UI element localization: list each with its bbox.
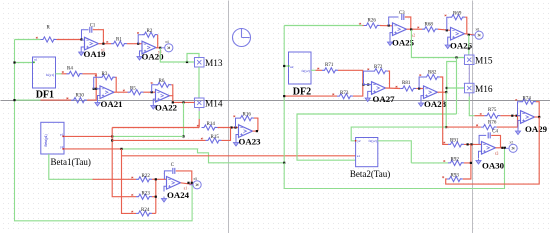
svg-text:R92: R92 xyxy=(451,157,460,162)
resistor R68 xyxy=(417,23,438,32)
wire x2 to Beta2 y2 pin xyxy=(351,127,446,141)
op-amp OA24 xyxy=(167,177,190,201)
svg-text:R4: R4 xyxy=(67,67,73,72)
wire net to Beta2 input xyxy=(297,114,457,160)
wire y1d vertical to R23 xyxy=(112,128,136,197)
wire OA29 out to R93 xyxy=(446,117,540,184)
junction node at 468.3,48 xyxy=(468,47,470,49)
svg-text:R24: R24 xyxy=(141,208,150,213)
wire Beta1 y2 red xyxy=(64,148,122,150)
junction node at 186.5,61.5 xyxy=(186,61,188,63)
resistor R82 xyxy=(419,71,440,80)
multiplier M13 xyxy=(195,58,223,70)
junction node at 418.6,88 xyxy=(418,87,420,89)
wire OA25 feedback left xyxy=(389,17,399,26)
output probe x5 node z1 xyxy=(189,177,201,189)
op-amp OA21 xyxy=(100,86,123,109)
wire OA19 feedback right xyxy=(93,30,104,44)
block Beta1(Tau) xyxy=(41,122,91,167)
junction node at 446.2,87.5 xyxy=(446,87,448,89)
wire R30 to OA21 minus xyxy=(87,89,96,100)
svg-text:z2: z2 xyxy=(495,152,499,156)
wire OA27 feedback left xyxy=(364,71,373,85)
svg-text:R26: R26 xyxy=(368,19,377,24)
svg-text:OA22: OA22 xyxy=(155,103,178,113)
wire x2 to R76 xyxy=(446,126,481,128)
svg-text:R14: R14 xyxy=(207,122,216,127)
svg-text:C1: C1 xyxy=(90,23,96,28)
wire OA20 out xyxy=(156,47,161,49)
ground xyxy=(445,43,450,49)
svg-text:R3: R3 xyxy=(102,72,108,77)
ground xyxy=(418,101,423,107)
op-amp OA30 xyxy=(482,142,505,171)
ground xyxy=(387,40,392,46)
junction node at 468.3,34.4 xyxy=(468,34,470,36)
svg-text:R6: R6 xyxy=(159,79,165,84)
resistor R81 xyxy=(396,81,417,91)
wire R14 to OA23 xyxy=(218,127,239,129)
wire OA30 out xyxy=(496,147,506,149)
svg-text:R1: R1 xyxy=(116,38,122,43)
wire M14 out red xyxy=(198,119,200,128)
op-amp OA26 xyxy=(450,27,473,50)
wire R4 to OA21 minus xyxy=(83,74,97,89)
wire OA26 feedback right xyxy=(465,17,467,34)
resistor R6 xyxy=(151,79,172,87)
wire OA20 feedback left xyxy=(138,35,142,44)
resistor R71 xyxy=(317,63,338,73)
wire Beta1 out to R22 green xyxy=(49,154,93,179)
multiplier M16 xyxy=(465,83,493,95)
wire to R75 red xyxy=(475,115,485,117)
svg-text:C4: C4 xyxy=(492,129,498,134)
wire OA28 feedback right xyxy=(440,77,443,92)
svg-text:R23: R23 xyxy=(142,191,151,196)
resistor R74 xyxy=(515,97,536,105)
wire y1 to DF1 u1 xyxy=(15,62,33,64)
junction node at 470.9,143.9 xyxy=(470,143,472,145)
junction node at 14,62 xyxy=(13,61,15,63)
wire OA23 feedback right xyxy=(254,118,258,131)
resistor R23 xyxy=(131,191,152,199)
wire to R68 xyxy=(413,28,423,30)
output probe x4 node y1 xyxy=(161,40,173,52)
wire M14 out green xyxy=(198,111,200,119)
wire y2 net vertical xyxy=(283,26,285,163)
junction node at 151.2,91.7 xyxy=(151,91,153,93)
wire OA29 feedback right xyxy=(536,102,539,117)
svg-text:fx(y1): fx(y1) xyxy=(46,73,54,77)
junction node at 111.7,139.9 xyxy=(111,139,113,141)
wire R1 to OA20 xyxy=(127,43,142,45)
junction node at 445.7,91.7 xyxy=(445,91,447,93)
wire OA23 feedback left xyxy=(236,118,239,127)
wire OA21 feedback right xyxy=(115,77,118,92)
wire OA28 feedback left xyxy=(419,77,424,89)
page divider vertical 2 xyxy=(472,1,474,234)
svg-text:DF1: DF1 xyxy=(36,89,54,100)
ground xyxy=(137,55,142,61)
wire OA23 plus to ground xyxy=(236,135,239,141)
svg-text:fx(y2): fx(y2) xyxy=(302,69,310,73)
wire R68 to OA26 xyxy=(438,29,451,30)
ground xyxy=(161,197,166,203)
svg-text:Beta1(Tau): Beta1(Tau) xyxy=(51,157,91,167)
wire R75 to OA29 xyxy=(500,115,520,117)
wire R15 to OA23 node xyxy=(222,128,231,141)
wire DF1 out xyxy=(56,73,62,75)
wire OA26 feedback left xyxy=(447,17,449,30)
junction node at 283.7,162.3 xyxy=(283,162,285,164)
wire M14 row down to Beta1 y1 net xyxy=(183,102,185,136)
wire y2d long to Beta2 xyxy=(122,155,356,157)
resistor R26 xyxy=(359,19,380,28)
wire OA19 minus lead xyxy=(82,39,85,42)
page divider vertical 1 xyxy=(228,1,230,234)
wire Beta1 y1 green xyxy=(112,135,183,137)
wire OA24 feedback right xyxy=(176,171,192,183)
junction node at 14,99.6 xyxy=(13,99,15,101)
junction node at 367.7,84.1 xyxy=(367,84,369,86)
wire sum node to OA24 minus xyxy=(156,179,167,213)
wire y2 to DF2 u2 xyxy=(284,65,288,67)
junction node at 511.8,115.2 xyxy=(511,115,513,117)
junction node at 159.8,47.3 xyxy=(159,47,161,49)
junction node at 155.3,178.8 xyxy=(155,178,157,180)
svg-text:OA29: OA29 xyxy=(525,124,548,134)
wire y2d vertical to R24 xyxy=(122,149,137,214)
wire y1 to R30 xyxy=(15,99,41,101)
svg-text:x4: x4 xyxy=(165,40,169,44)
svg-text:M16: M16 xyxy=(475,85,493,95)
wire OA22 plus to ground xyxy=(153,99,155,103)
resistor R93 xyxy=(442,174,463,182)
junction node at 235,127 xyxy=(234,126,236,128)
svg-text:R76: R76 xyxy=(488,120,497,125)
junction node at 470.4,162.4 xyxy=(470,162,472,164)
junction node at 410.7,29 xyxy=(410,28,412,30)
capacitor C xyxy=(173,168,175,174)
junction node at 231,127 xyxy=(230,126,232,128)
capacitor C4 xyxy=(488,132,490,138)
wire R26 to OA25 xyxy=(380,25,393,27)
wire y1 to M13 left xyxy=(160,48,194,62)
wire to R71 xyxy=(316,69,323,71)
wire OA19 out xyxy=(99,43,112,45)
wire OA29 minus lead xyxy=(518,115,521,117)
wire DF2 out xyxy=(311,69,316,71)
svg-text:y2: y2 xyxy=(411,33,415,37)
junction node at 456,57 xyxy=(455,56,457,58)
ground xyxy=(365,96,370,102)
block Beta2(Tau) xyxy=(350,138,390,179)
svg-text:Beta(y1): Beta(y1) xyxy=(44,134,48,146)
wire OA27 out xyxy=(386,87,401,90)
svg-text:R22: R22 xyxy=(142,174,151,179)
junction node at 121,148.4 xyxy=(120,148,122,150)
svg-text:R93: R93 xyxy=(451,174,460,179)
wire to R26 red xyxy=(363,25,364,27)
svg-text:Beta2(Tau): Beta2(Tau) xyxy=(350,169,390,179)
wire R92 to OA30 node xyxy=(464,144,471,163)
svg-text:C3: C3 xyxy=(399,11,405,16)
wire y1 feedback loop xyxy=(15,40,193,221)
wire OA28 plus to ground xyxy=(421,96,424,101)
svg-text:x6: x6 xyxy=(476,28,480,32)
svg-text:u1: u1 xyxy=(34,58,38,62)
svg-text:OA24: OA24 xyxy=(167,190,190,200)
op-amp OA22 xyxy=(155,89,178,112)
resistor R22 xyxy=(131,174,152,182)
resistor R2 xyxy=(137,29,158,37)
junction node at 172.3,101.9 xyxy=(172,101,174,103)
op-amp OA27 xyxy=(372,82,396,104)
wire Beta2 fx out xyxy=(378,141,412,163)
wire Beta1 y2 green jog xyxy=(122,149,283,163)
op-amp OA25 xyxy=(392,23,415,48)
junction node at 256.4,130.6 xyxy=(256,130,258,132)
wire OA24 out xyxy=(181,183,194,185)
svg-text:y2: y2 xyxy=(357,139,361,143)
wire OA24 feedback left xyxy=(164,171,171,179)
svg-text:OA23: OA23 xyxy=(239,137,262,147)
wire OA25 feedback right xyxy=(405,17,411,29)
wire to M16 left pin xyxy=(447,87,465,89)
resistor R1 xyxy=(106,38,127,47)
junction node at 467.1,143.9 xyxy=(467,143,469,145)
wire R24 out xyxy=(152,212,156,214)
wire M16 out stub xyxy=(468,93,470,97)
svg-text:R2: R2 xyxy=(147,29,153,34)
wire OA19 plus to ground xyxy=(81,47,84,50)
wire x2 to R91 xyxy=(443,92,448,144)
wire OA25 out to M15 left xyxy=(411,30,464,58)
ground xyxy=(476,159,481,165)
wire OA26 out xyxy=(465,34,475,35)
wire OA19 feedback left xyxy=(82,30,89,40)
wire M13 out to M14 top xyxy=(198,67,200,98)
resistor R92 xyxy=(443,157,464,165)
svg-text:R75: R75 xyxy=(488,108,497,113)
junction node at 388.2,25 xyxy=(388,24,390,26)
svg-text:x2: x2 xyxy=(510,141,514,145)
junction node at 283.7,65.5 xyxy=(283,65,285,67)
wire OA30 feedback left xyxy=(479,135,486,144)
resistor R91 xyxy=(443,139,464,147)
wire OA23 out xyxy=(253,130,258,132)
wire OA21 feedback left xyxy=(94,77,100,89)
wire OA28 out xyxy=(438,91,448,93)
wire jog join xyxy=(283,162,285,164)
svg-text:C: C xyxy=(171,163,174,168)
wire R81 to OA28 xyxy=(416,88,423,90)
output probe x2 node z2 xyxy=(505,141,517,153)
wire OA27 feedback right xyxy=(388,71,390,88)
junction node at 504.4,147.3 xyxy=(504,147,506,149)
resistor R76 xyxy=(476,120,497,129)
resistor R15 xyxy=(201,135,222,143)
svg-text:OA21: OA21 xyxy=(101,99,123,109)
junction node at 538.7,116.5 xyxy=(538,116,540,118)
svg-text:fx(y2): fx(y2) xyxy=(369,139,377,143)
ground xyxy=(79,50,84,56)
resistor R5 xyxy=(123,86,144,94)
wire OA27 plus to ground xyxy=(368,91,372,96)
junction node at 111.7,135.9 xyxy=(111,135,113,137)
junction node at 501.9,147.3 xyxy=(501,147,503,149)
junction node at 516.1,115.2 xyxy=(516,115,518,117)
wire R76 to OA29 node xyxy=(497,116,518,127)
multiplier M15 xyxy=(465,55,493,67)
wire Beta1 y1 red xyxy=(64,135,112,137)
wire M16 out down to R75 xyxy=(469,97,474,116)
svg-text:R72: R72 xyxy=(374,65,383,70)
wire M15 out to M16 top xyxy=(468,65,470,84)
op-amp OA23 xyxy=(239,125,262,147)
wire branch to M16 left xyxy=(447,62,457,93)
wire R71 to OA27 xyxy=(338,70,363,84)
svg-text:R30: R30 xyxy=(76,94,85,99)
junction node at 95.7,88.3 xyxy=(95,88,97,90)
wire OA21 plus to ground xyxy=(98,96,101,101)
junction node at 81,39 xyxy=(80,38,82,40)
junction node at 446.3,29.8 xyxy=(446,29,448,31)
svg-text:R81: R81 xyxy=(402,81,411,86)
wire OA20 plus to ground xyxy=(140,51,143,55)
junction node at 188,182.3 xyxy=(187,182,189,184)
wire OA22 out to M14 left xyxy=(170,96,195,103)
svg-text:u2: u2 xyxy=(290,65,294,69)
svg-text:R82: R82 xyxy=(428,71,437,76)
svg-text:OA30: OA30 xyxy=(482,160,505,170)
block DF2 xyxy=(288,52,311,98)
wire M14 out stub xyxy=(198,108,200,112)
junction node at 363,84.1 xyxy=(362,84,364,86)
wire OA21 out xyxy=(114,91,128,93)
wire R91 to OA30 xyxy=(464,143,482,145)
wire OA29 feedback left xyxy=(518,102,521,116)
wire y1 to M13 top xyxy=(187,54,199,63)
svg-text:R73: R73 xyxy=(340,91,349,96)
svg-text:z1: z1 xyxy=(184,187,188,191)
junction node at 155.3,196.2 xyxy=(155,196,157,198)
junction node at 191.3,182.3 xyxy=(191,182,193,184)
output probe x6 node y2 xyxy=(471,28,483,40)
svg-text:x5: x5 xyxy=(194,177,198,181)
ground xyxy=(515,129,520,135)
wire OA25 out xyxy=(407,28,413,30)
svg-text:M14: M14 xyxy=(205,100,223,110)
junction node at 183,101.9 xyxy=(182,101,184,103)
op-amp OA28 xyxy=(424,86,447,109)
wire R22 out xyxy=(152,178,156,180)
ground xyxy=(151,104,156,110)
svg-text:R16: R16 xyxy=(243,113,252,118)
svg-text:R68: R68 xyxy=(425,23,434,28)
wire y2 to R73 xyxy=(284,95,337,97)
svg-text:M15: M15 xyxy=(475,57,493,67)
resistor R xyxy=(36,26,57,43)
wire R23 out xyxy=(152,196,156,198)
wire OA24 plus to ground xyxy=(164,186,167,191)
wire Beta1 out to R22 red xyxy=(93,178,137,180)
svg-text:R69: R69 xyxy=(453,11,462,16)
junction node at 445.7,126.6 xyxy=(445,126,447,128)
ground xyxy=(95,101,100,107)
wire OA21 minus lead xyxy=(96,88,100,90)
block DF1 xyxy=(33,57,56,100)
capacitor C3 xyxy=(402,14,404,20)
junction node at 137.7,43.2 xyxy=(137,43,139,45)
wire OA20 feedback right xyxy=(157,35,159,48)
svg-text:u1: u1 xyxy=(357,154,361,158)
wire net vertical x456 xyxy=(456,58,458,115)
wire OA30 feedback right xyxy=(491,135,500,147)
wire to R4 xyxy=(62,73,67,75)
resistor R3 xyxy=(95,72,116,80)
wire OA25 plus to ground xyxy=(390,33,393,40)
svg-text:R71: R71 xyxy=(325,63,334,68)
wire OA29 out xyxy=(535,116,540,118)
wire to R30 xyxy=(41,99,72,101)
resistor R73 xyxy=(332,91,353,99)
resistor R30 xyxy=(67,94,88,103)
svg-text:y1: y1 xyxy=(101,48,105,52)
resistor R72 xyxy=(367,65,388,74)
wire R73 to OA27 xyxy=(353,85,363,97)
wire R to OA19 xyxy=(57,39,82,41)
junction node at 102.9,43.2 xyxy=(102,43,104,45)
wire OA29 plus to ground xyxy=(518,120,521,129)
svg-text:OA27: OA27 xyxy=(373,94,396,104)
op-amp OA29 xyxy=(521,111,548,134)
wire y1 to R xyxy=(15,39,41,41)
junction node at 283.7,95.6 xyxy=(283,95,285,97)
resistor R4 xyxy=(62,67,83,77)
junction node at 93.2,88.3 xyxy=(93,88,95,90)
resistor R24 xyxy=(131,208,152,216)
resistor R69 xyxy=(445,11,466,19)
wire OA27 minus lead xyxy=(363,84,372,86)
capacitor C1 xyxy=(90,27,92,33)
svg-text:R5: R5 xyxy=(130,86,136,91)
wire Beta2 out to R92 xyxy=(411,162,448,164)
resistor R16 xyxy=(233,113,254,121)
svg-text:R74: R74 xyxy=(523,97,532,102)
clock icon xyxy=(233,29,251,47)
svg-text:R15: R15 xyxy=(211,135,220,140)
multiplier M14 xyxy=(195,98,223,110)
wire OA22 feedback left xyxy=(152,85,156,92)
svg-text:M13: M13 xyxy=(205,59,223,69)
wire z2 bottom return xyxy=(284,148,504,189)
page divider horizontal xyxy=(1,100,550,102)
wire x2 down xyxy=(445,92,447,127)
op-amp OA19 xyxy=(84,37,107,59)
resistor R14 xyxy=(197,122,218,130)
wire R5 to OA22 xyxy=(144,91,156,93)
wire OA22 feedback right xyxy=(171,85,173,96)
ground xyxy=(233,141,238,147)
wire R93 to OA30 node xyxy=(463,163,471,179)
op-amp OA20 xyxy=(142,41,165,61)
wire OA30 plus to ground xyxy=(479,151,482,158)
resistor R75 xyxy=(480,108,501,118)
svg-text:R91: R91 xyxy=(450,139,459,144)
wire y2 to M15 top xyxy=(468,35,470,55)
wire y2 to R26 xyxy=(284,25,362,27)
